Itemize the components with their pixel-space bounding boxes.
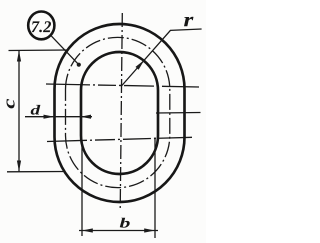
d arrow right (tip at outer contour) <box>44 115 55 119</box>
d arrow left (tip at inner contour) <box>80 115 91 119</box>
radius leader r <box>121 29 202 87</box>
balloon label 7.2 <box>32 21 51 32</box>
r arrowhead on inner arc <box>136 60 145 70</box>
c bottom extension line <box>7 171 65 173</box>
horizontal centerline right segment (weld) <box>156 112 201 115</box>
dimension b line <box>79 230 158 232</box>
mid centerline oval of link (dash-dot) <box>66 37 170 187</box>
c top extension line <box>9 49 69 52</box>
inner contour (hole) of chain link <box>81 52 158 174</box>
dimension c line <box>18 51 20 172</box>
b right extension line <box>154 138 156 239</box>
b arrow right <box>144 228 155 232</box>
label b <box>120 218 130 228</box>
outer contour of chain link <box>55 24 185 202</box>
label r <box>184 17 194 26</box>
b left extension line <box>81 142 83 236</box>
bottom end-arc center line <box>47 137 192 141</box>
c arrow down <box>17 161 21 172</box>
vertical centerline <box>120 13 122 210</box>
c arrow up <box>17 51 21 62</box>
balloon leader <box>51 36 79 65</box>
balloon leader dot <box>77 63 81 67</box>
b arrow left <box>82 228 93 232</box>
label d <box>31 105 41 115</box>
balloon circle <box>28 12 54 40</box>
top end-arc center line <box>46 84 199 87</box>
dimension d line <box>25 116 92 118</box>
label c (rotated) <box>7 99 15 109</box>
